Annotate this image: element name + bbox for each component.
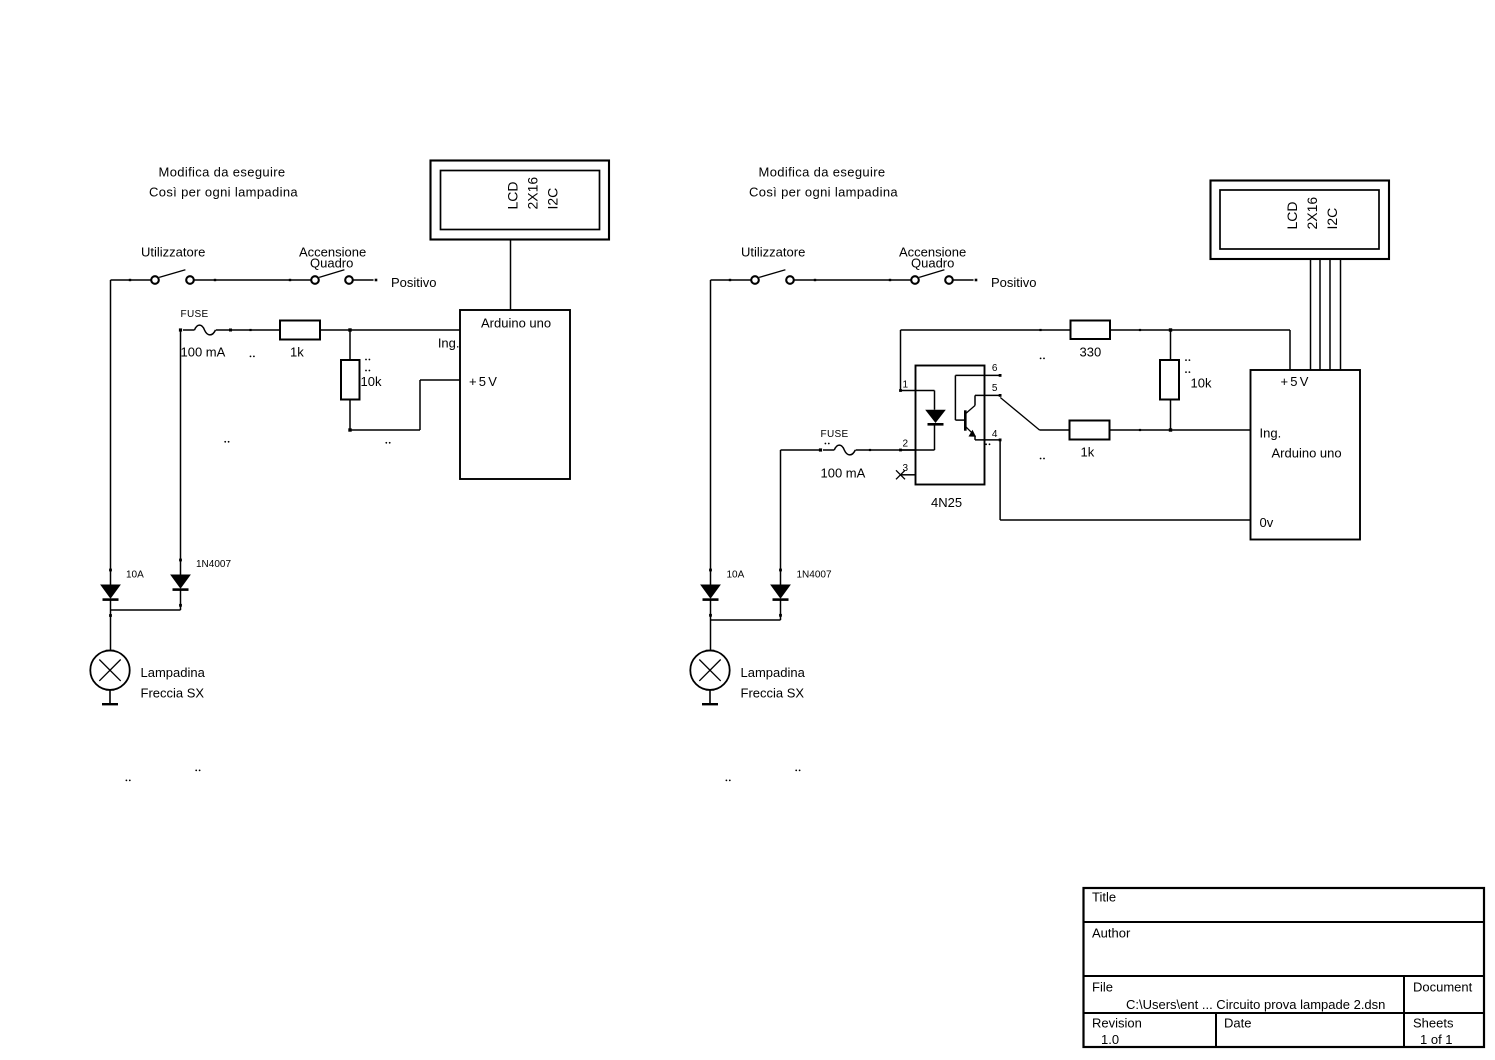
svg-text:330: 330: [1080, 344, 1102, 359]
wire +5V net top (right): [901, 329, 1071, 331]
note text (left): [149, 165, 298, 200]
svg-text:1N4007: 1N4007: [196, 559, 231, 570]
tick marks (right): [726, 358, 1191, 782]
svg-text:1k: 1k: [290, 344, 304, 359]
title block File field: [1092, 980, 1385, 1013]
svg-text:Modifica da eseguire: Modifica da eseguire: [159, 165, 286, 180]
svg-text:1k: 1k: [1081, 445, 1095, 460]
svg-text:Positivo: Positivo: [391, 275, 437, 290]
svg-text:Positivo: Positivo: [991, 275, 1037, 290]
svg-text:Sheets: Sheets: [1413, 1016, 1454, 1031]
svg-text:5: 5: [992, 383, 998, 394]
svg-text:Lampadina: Lampadina: [741, 665, 806, 680]
svg-text:Ing.: Ing.: [1260, 426, 1282, 441]
svg-text:LCD: LCD: [505, 181, 521, 209]
pin 3 of 4N25 with no-connect X: [896, 463, 916, 479]
ground (right): [702, 690, 718, 704]
resistor R5 1k (right): [1070, 421, 1110, 460]
title block Title field: [1092, 890, 1116, 905]
svg-text:6: 6: [992, 363, 998, 374]
switch SW3 Utilizzatore (right): [741, 245, 805, 284]
svg-text:1N4007: 1N4007: [797, 570, 832, 581]
lamp Lampadina Freccia SX (left): [90, 651, 205, 701]
svg-text:1 of 1: 1 of 1: [1420, 1032, 1453, 1047]
svg-text:Ing.: Ing.: [438, 336, 460, 351]
svg-text:1.0: 1.0: [1101, 1032, 1119, 1047]
svg-text:Quadro: Quadro: [911, 256, 954, 271]
diode D1 10A (left): [100, 569, 144, 610]
svg-text:I2C: I2C: [1324, 208, 1340, 230]
svg-text:File: File: [1092, 980, 1113, 995]
svg-text:Modifica da eseguire: Modifica da eseguire: [759, 165, 886, 180]
svg-text:1: 1: [903, 379, 909, 390]
wire battery feed vertical (right): [710, 280, 712, 585]
arduino U1 Arduino uno (left): [438, 310, 570, 479]
optocoupler U2 4N25: [916, 366, 985, 511]
wire pin4 to Arduino 0v (right): [1000, 440, 1250, 520]
diode D4 1N4007 (right): [770, 569, 832, 620]
wire positive rail (left): [111, 279, 374, 281]
node Positivo (right): [975, 275, 1037, 290]
title block Document field: [1413, 980, 1473, 995]
svg-text:Revision: Revision: [1092, 1016, 1142, 1031]
pin 5 of 4N25: [975, 383, 1002, 397]
switch SW2 Accensione Quadro (left): [299, 245, 366, 284]
svg-text:Utilizzatore: Utilizzatore: [741, 245, 805, 260]
svg-text:Così per ogni lampadina: Così per ogni lampadina: [149, 185, 298, 200]
diode D3 10A (right): [700, 569, 745, 620]
svg-text:I2C: I2C: [545, 188, 561, 210]
svg-text:Freccia SX: Freccia SX: [741, 686, 805, 701]
svg-text:Utilizzatore: Utilizzatore: [141, 245, 205, 260]
resistor R4 10k (right): [1160, 330, 1212, 430]
note text (right): [749, 165, 898, 200]
switch SW1 Utilizzatore (left): [141, 245, 205, 284]
svg-text:FUSE: FUSE: [821, 429, 849, 440]
fuse FUSE 100 mA (left): [179, 309, 280, 359]
fuse FUSE 100 mA (right): [781, 429, 916, 480]
wire positive rail (right): [711, 279, 974, 281]
pin 4 of 4N25: [975, 429, 1002, 441]
svg-text:10A: 10A: [727, 570, 745, 581]
ground (left): [102, 690, 118, 704]
wire battery feed vertical (left): [110, 280, 112, 585]
title block Date field: [1224, 1016, 1251, 1031]
svg-text:Date: Date: [1224, 1016, 1251, 1031]
lamp Lampadina Freccia SX (right): [690, 651, 805, 701]
svg-text:3: 3: [903, 463, 909, 474]
title block Sheets field: [1413, 1016, 1454, 1048]
svg-text:C:\Users\ent ... Circuito prov: C:\Users\ent ... Circuito prova lampade …: [1126, 997, 1385, 1012]
svg-text:10k: 10k: [361, 374, 382, 389]
svg-text:Lampadina: Lampadina: [141, 665, 206, 680]
wire fuse to diode vertical (right): [780, 450, 782, 585]
tick marks (left): [126, 356, 391, 782]
node Positivo (left): [375, 275, 437, 290]
svg-text:2X16: 2X16: [525, 177, 541, 210]
svg-text:4N25: 4N25: [931, 495, 962, 510]
svg-text:Arduino uno: Arduino uno: [1272, 445, 1342, 460]
svg-text:Freccia SX: Freccia SX: [141, 686, 205, 701]
pin 2 of 4N25: [899, 439, 934, 452]
arduino U3 Arduino uno (right): [1251, 370, 1361, 540]
svg-text:10A: 10A: [126, 570, 144, 581]
title block frame: [1084, 888, 1485, 1047]
wire R1 to Arduino Ing (left): [320, 328, 460, 331]
resistor R2 10k (left): [341, 330, 382, 430]
lcd module LCD 2X16 I2C (left): [431, 161, 610, 240]
LED inside 4N25: [925, 391, 946, 451]
wire 330 to Arduino +5V (right): [1110, 328, 1290, 370]
svg-text:Così per ogni lampadina: Così per ogni lampadina: [749, 185, 898, 200]
title block Revision field: [1092, 1016, 1142, 1048]
svg-text:10k: 10k: [1191, 375, 1212, 390]
svg-text:4: 4: [992, 429, 998, 440]
wire pin1 to +5V net (right): [900, 330, 902, 391]
title block Author field: [1092, 926, 1131, 941]
svg-text:FUSE: FUSE: [181, 309, 209, 320]
svg-text:LCD: LCD: [1284, 201, 1300, 229]
diode D2 1N4007 (left): [170, 330, 231, 610]
phototransistor inside 4N25: [955, 375, 976, 440]
resistor R3 330 (right): [1071, 321, 1111, 360]
wire 10k to +5V pin (left): [348, 380, 460, 432]
svg-text:+5V: +5V: [1281, 374, 1311, 389]
svg-text:Document: Document: [1413, 980, 1473, 995]
svg-text:Arduino uno: Arduino uno: [481, 316, 551, 331]
wire diode junction to lamp (right): [709, 614, 782, 651]
pin 6 of 4N25: [955, 363, 1001, 377]
svg-text:0v: 0v: [1260, 515, 1274, 530]
svg-text:100 mA: 100 mA: [181, 344, 226, 359]
wire 1k to Arduino Ing (right): [1110, 428, 1251, 431]
wire diode junction to lamp (left): [109, 610, 180, 651]
wire pin5 to 1k (right): [1000, 398, 1069, 431]
svg-text:Author: Author: [1092, 926, 1131, 941]
wire LCD to Arduino (left): [510, 240, 512, 311]
pin 1 of 4N25: [899, 379, 934, 392]
svg-text:2X16: 2X16: [1304, 197, 1320, 230]
switch SW4 Accensione Quadro (right): [899, 245, 966, 284]
svg-text:Quadro: Quadro: [310, 256, 353, 271]
wires LCD to Arduino I2C bus (right): [1311, 259, 1341, 370]
svg-text:Title: Title: [1092, 890, 1116, 905]
resistor R1 1k (left): [280, 321, 320, 360]
svg-text:100 mA: 100 mA: [821, 465, 866, 480]
svg-text:2: 2: [903, 439, 909, 450]
svg-text:+5V: +5V: [469, 374, 499, 389]
lcd module LCD 2X16 I2C (right): [1211, 181, 1390, 260]
